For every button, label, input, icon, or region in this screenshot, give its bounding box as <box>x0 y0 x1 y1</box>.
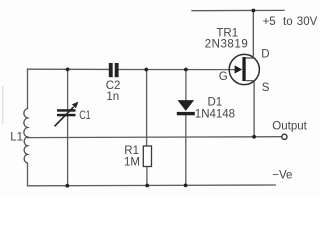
svg-text:C2: C2 <box>106 80 121 92</box>
transistor TR1 circle <box>229 54 259 84</box>
svg-text:+5: +5 <box>263 16 276 28</box>
junction dot bottom bus / R1 <box>145 184 149 188</box>
svg-text:30V: 30V <box>297 16 318 28</box>
capacitor C2 plates <box>109 63 119 77</box>
junction dot top wire / R1 <box>144 68 148 72</box>
wire left vertical (below L1) <box>27 163 29 186</box>
capacitor C1 (variable) plates <box>57 109 76 116</box>
svg-text:1N4148: 1N4148 <box>195 109 235 121</box>
transistor TR1 channel bar <box>242 57 245 81</box>
junction dot top wire / D1 <box>184 68 188 72</box>
wire top bus right segment to gate <box>119 68 236 70</box>
wire top bus left segment <box>28 68 109 70</box>
svg-text:1n: 1n <box>106 91 119 103</box>
transistor TR1 drain lead <box>246 11 254 59</box>
resistor R1 body <box>143 146 151 167</box>
svg-text:C1: C1 <box>79 110 91 122</box>
junction dot +V rail / drain <box>252 9 256 13</box>
svg-text:2N3819: 2N3819 <box>205 38 249 50</box>
diode D1 <box>177 100 195 115</box>
output terminal circle <box>282 134 287 139</box>
wire R1 branch upper <box>146 70 148 147</box>
inductor L1 <box>24 109 28 164</box>
wire C1 branch lower <box>67 116 69 186</box>
svg-text:R1: R1 <box>124 145 139 157</box>
transistor TR1 source lead <box>246 81 254 137</box>
wire middle output line <box>28 136 282 139</box>
capacitor C1 arrow <box>55 102 79 127</box>
junction dot output line / source <box>252 135 256 139</box>
svg-text:G: G <box>219 71 228 83</box>
wire left vertical (top of L1) <box>27 69 29 109</box>
junction dot bottom bus / C1 <box>65 184 69 188</box>
svg-text:L1: L1 <box>10 132 23 144</box>
wire D1 branch upper <box>185 70 187 101</box>
svg-text:−Ve: −Ve <box>272 170 292 182</box>
transistor TR1 gate arrow <box>235 65 243 73</box>
svg-text:Output: Output <box>272 121 307 133</box>
svg-text:S: S <box>262 82 270 94</box>
wire C1 branch upper <box>67 70 69 110</box>
wire +V top rail <box>192 9 284 11</box>
svg-text:D: D <box>261 49 269 61</box>
svg-text:to: to <box>283 16 293 28</box>
svg-text:D1: D1 <box>208 97 223 109</box>
label supply +5 to 30V <box>263 16 318 28</box>
wire R1 branch lower <box>146 167 148 186</box>
wire D1 branch lower <box>185 115 187 185</box>
junction dot top wire / C1 <box>66 68 70 72</box>
svg-text:1M: 1M <box>124 156 140 168</box>
junction dot bottom bus / D1 <box>184 184 188 188</box>
wire bottom -Ve bus <box>28 184 276 187</box>
